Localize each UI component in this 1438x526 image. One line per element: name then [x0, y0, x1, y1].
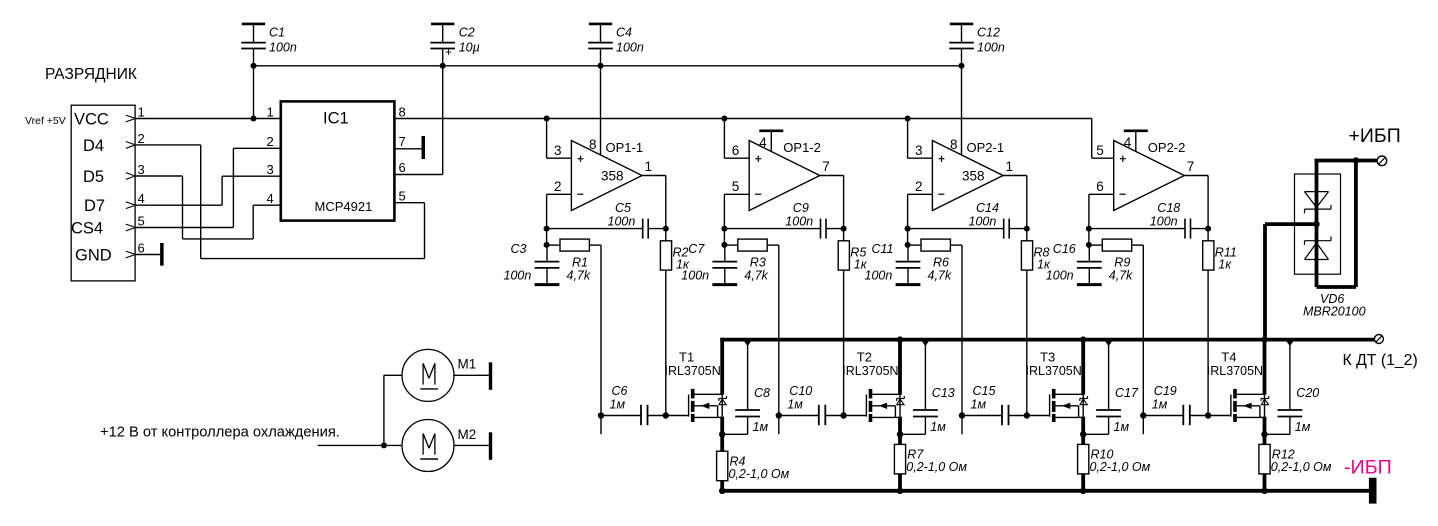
capacitor C13 — [913, 341, 938, 435]
label C14 — [976, 201, 999, 215]
svg-text:8: 8 — [589, 137, 597, 152]
svg-text:6: 6 — [732, 143, 740, 158]
svg-text:8: 8 — [399, 105, 406, 120]
wire source node to C17 — [1083, 433, 1108, 435]
diode VD6 upper half — [1305, 192, 1332, 214]
op-amp OP1-1 + sign — [578, 156, 584, 162]
wire VD6 common node to bus — [1265, 224, 1317, 340]
wire GND pin6 — [135, 254, 160, 256]
capacitor C5 feedback — [547, 219, 666, 239]
wire R8 to gate node — [1026, 270, 1028, 415]
pin number 8 of OP2-1 — [950, 137, 958, 152]
label R6 — [933, 256, 949, 270]
junction feedback right OP2-1 — [1024, 226, 1030, 232]
IC1 left pin 3 number — [267, 162, 274, 177]
value label C19 1м — [1152, 398, 1168, 412]
resistor R12 — [1259, 444, 1270, 474]
svg-text:100n: 100n — [865, 269, 893, 283]
wire VD6 cathode column — [1315, 161, 1319, 288]
connector X1 body — [71, 105, 135, 281]
value label R7 0,2-1,0 Ом — [906, 460, 967, 474]
junction C19 left node — [1140, 412, 1146, 418]
label R2 — [673, 246, 689, 260]
svg-text:C17: C17 — [1115, 386, 1139, 400]
connector pin 4 arrow — [126, 202, 135, 209]
junction gate node T4 — [1205, 412, 1211, 418]
svg-text:РАЗРЯДНИК: РАЗРЯДНИК — [45, 66, 137, 83]
wire - input of OP1-2 — [724, 194, 749, 245]
svg-text:C7: C7 — [688, 242, 705, 256]
wire - input of OP2-2 — [1089, 194, 1114, 245]
wire M1 to ground bar — [453, 374, 489, 376]
label C5 — [615, 201, 631, 215]
value label R12 0,2-1,0 Ом — [1271, 460, 1332, 474]
label R7 — [907, 448, 924, 462]
wire R11 to gate node — [1207, 270, 1209, 415]
value label R8 1к — [1037, 258, 1051, 272]
junction +ИБП branch — [1353, 157, 1359, 163]
ground bar at connector GND — [160, 243, 164, 266]
svg-text:3: 3 — [267, 162, 274, 177]
svg-text:+12 В от контроллера охлаждени: +12 В от контроллера охлаждения. — [100, 425, 340, 441]
wire output of OP1-1 to R2 — [642, 176, 666, 241]
value label T1 IRL3705N — [665, 364, 721, 378]
diode VD6 box — [1295, 174, 1341, 274]
svg-text:100n: 100n — [608, 215, 636, 229]
connector pin name D5 — [83, 168, 104, 186]
pin number 7 (out) of OP2-2 — [1187, 159, 1195, 174]
label C2 — [459, 25, 475, 39]
wire source of T2 down — [898, 417, 902, 445]
junction DAC rail / OP2-1 +input — [905, 116, 911, 122]
motor M2 — [402, 420, 454, 472]
wire D4 net — [135, 145, 424, 259]
svg-text:1м: 1м — [1295, 420, 1311, 434]
label R12 — [1272, 448, 1295, 462]
pin number 2 (-in) of OP2-1 — [915, 179, 923, 194]
svg-text:IRL3705N: IRL3705N — [842, 364, 898, 378]
wire drain of T1 to top bus — [720, 338, 724, 395]
svg-text:0,2-1,0 Ом: 0,2-1,0 Ом — [906, 460, 967, 474]
wire below C2 — [442, 66, 444, 175]
svg-text:100n: 100n — [269, 41, 297, 55]
value label R9 4,7k — [1109, 269, 1133, 283]
capacitor C16 — [1077, 245, 1102, 283]
connector pin 3 number — [138, 162, 145, 177]
svg-text:4,7k: 4,7k — [567, 269, 591, 283]
power bar above C2 — [431, 23, 454, 26]
op-amp OP2-1 + sign — [939, 156, 945, 162]
capacitor C1 — [241, 25, 266, 66]
svg-text:1м: 1м — [753, 420, 769, 434]
svg-text:4,7k: 4,7k — [1109, 269, 1133, 283]
wire IC1 pin7 — [394, 148, 421, 150]
value label C16 100n — [1046, 269, 1074, 283]
junction gate node T3 — [1024, 412, 1030, 418]
connector pin 6 arrow — [126, 251, 135, 258]
svg-text:C8: C8 — [754, 386, 770, 400]
value label C11 100n — [865, 269, 893, 283]
pin number 2 (-in) of OP1-1 — [554, 179, 562, 194]
op-amp OP2-2 — [1114, 141, 1185, 211]
svg-text:GND: GND — [75, 247, 112, 265]
wire - input of OP1-1 — [547, 194, 572, 245]
wire +ИБП right branch down — [1354, 161, 1358, 288]
svg-text:+: + — [445, 45, 452, 59]
wire +12V feed — [318, 444, 403, 446]
capacitor C8 — [735, 341, 760, 435]
svg-text:C14: C14 — [976, 201, 999, 215]
svg-text:M1: M1 — [458, 357, 477, 372]
svg-text:OP2-2: OP2-2 — [1148, 140, 1186, 155]
value label C4 100n — [616, 41, 644, 55]
wire output of OP2-2 to R11 — [1184, 176, 1208, 241]
connector pin 1 arrow — [126, 115, 135, 122]
svg-text:R3: R3 — [750, 256, 766, 270]
value label R10 0,2-1,0 Ом — [1090, 460, 1151, 474]
junction feedback left OP2-2 — [1086, 226, 1092, 232]
label R8 — [1034, 246, 1050, 260]
svg-text:2: 2 — [267, 134, 274, 149]
label R11 — [1215, 246, 1237, 260]
resistor R6 — [908, 239, 962, 251]
value label C9 100n — [785, 215, 813, 229]
wire output of OP1-2 to R5 — [820, 176, 844, 241]
label C10 — [789, 384, 812, 398]
junction source node T2 — [897, 431, 903, 437]
connector pin 2 number — [138, 131, 145, 146]
svg-text:100n: 100n — [969, 215, 997, 229]
svg-text:D7: D7 — [84, 197, 105, 215]
svg-text:100n: 100n — [616, 41, 644, 55]
label 358 inside OP1-1 — [601, 169, 624, 184]
ground bar at C11 — [896, 283, 921, 286]
wire drain of T4 to top bus — [1263, 338, 1267, 395]
wire below C12 — [961, 66, 963, 155]
svg-text:0,2-1,0 Ом: 0,2-1,0 Ом — [1271, 460, 1332, 474]
pin number 5 (+in) of OP2-2 — [1096, 143, 1104, 158]
value label R4 0,2-1,0 Ом — [729, 467, 790, 481]
svg-text:1м: 1м — [610, 398, 626, 412]
label C19 — [1154, 384, 1177, 398]
ground bar at M2 — [489, 432, 492, 460]
wire gate node to T3 gate — [1027, 415, 1050, 417]
label R1 — [572, 256, 588, 270]
resistor R10 — [1078, 444, 1089, 474]
svg-text:R1: R1 — [572, 256, 588, 270]
capacitor C4 — [588, 25, 613, 66]
junction R7 on bottom bus — [897, 488, 903, 494]
IC1 right pin 7 number — [399, 134, 406, 149]
junction DAC rail / OP1-1 +input — [544, 116, 550, 122]
svg-text:100n: 100n — [785, 215, 813, 229]
terminal К ДТ — [1374, 335, 1383, 344]
svg-text:5: 5 — [732, 179, 740, 194]
wire R10 to bottom bus — [1081, 474, 1085, 491]
pin number 1 (out) of OP1-1 — [645, 159, 653, 174]
wire D7 net — [135, 176, 281, 205]
power bar above C12 — [950, 23, 973, 26]
op-amp OP1-1 - sign — [577, 193, 583, 195]
junction C2 on +5V rail — [440, 63, 446, 69]
value label T2 IRL3705N — [842, 364, 898, 378]
wire to motor M1 — [384, 375, 402, 445]
junction feedback right OP1-1 — [663, 226, 669, 232]
wire DAC output rail from IC1 pin8 — [394, 118, 1091, 120]
IC1 right pin 6 number — [399, 160, 406, 175]
svg-text:C4: C4 — [616, 25, 632, 39]
op-amp OP2-2 - sign — [1120, 193, 1126, 195]
transistor T4 IRL3705N — [1231, 389, 1265, 422]
value label T3 IRL3705N — [1026, 364, 1082, 378]
wire - input of OP2-1 — [908, 194, 933, 245]
svg-text:+ИБП: +ИБП — [1349, 125, 1401, 147]
svg-text:0,2-1,0 Ом: 0,2-1,0 Ом — [1090, 460, 1151, 474]
wire + input of OP2-1 from DAC rail — [908, 119, 933, 159]
svg-text:C20: C20 — [1296, 386, 1319, 400]
label C8 — [754, 386, 770, 400]
label T2 — [857, 350, 872, 365]
svg-text:10µ: 10µ — [459, 41, 480, 55]
capacitor C10 — [779, 405, 844, 425]
pin number 5 (-in) of OP1-2 — [732, 179, 740, 194]
svg-text:C15: C15 — [973, 384, 996, 398]
value label C7 100n — [681, 269, 709, 283]
power bar above C4 — [589, 23, 612, 26]
ground bar at IC1 pin7 — [422, 136, 426, 159]
svg-text:4: 4 — [1124, 135, 1132, 150]
label VD6 — [1320, 292, 1344, 306]
label R9 — [1114, 256, 1130, 270]
connector pin name GND — [75, 247, 112, 265]
svg-text:R9: R9 — [1114, 256, 1130, 270]
resistor R3 — [724, 239, 778, 251]
wire D5 net — [135, 176, 281, 239]
value label C10 1м — [787, 398, 803, 412]
value label C6 1м — [610, 398, 626, 412]
wire R3 right lead down to source sense — [778, 245, 780, 434]
label C20 — [1296, 386, 1319, 400]
svg-text:7: 7 — [1187, 159, 1195, 174]
capacitor C11 — [896, 245, 921, 283]
junction C10 left node — [776, 412, 782, 418]
svg-text:2: 2 — [554, 179, 562, 194]
svg-text:OP1-2: OP1-2 — [783, 140, 821, 155]
ground bar at C3 — [535, 283, 560, 286]
IC1 part label MCP4921 — [315, 199, 373, 214]
wire + input of OP1-1 from DAC rail — [547, 119, 572, 159]
wire source of T4 down — [1263, 417, 1267, 445]
label M1 — [458, 357, 477, 372]
polarity + of C2 — [445, 45, 452, 59]
label T1 — [679, 350, 694, 365]
label C4 — [616, 25, 632, 39]
svg-text:1м: 1м — [971, 398, 987, 412]
svg-text:7: 7 — [822, 159, 830, 174]
wire +5V rail — [254, 65, 962, 67]
label C1 — [269, 25, 285, 39]
svg-text:3: 3 — [554, 143, 562, 158]
wire + input of OP1-2 from DAC rail — [724, 119, 749, 159]
value label C14 100n — [969, 215, 997, 229]
svg-text:C13: C13 — [932, 386, 955, 400]
junction feedback right OP1-2 — [841, 226, 847, 232]
svg-text:C1: C1 — [269, 25, 285, 39]
svg-text:C2: C2 — [459, 25, 475, 39]
wire R5 to gate node — [843, 270, 845, 415]
junction C15 left node — [959, 412, 965, 418]
resistor R4 — [717, 451, 728, 481]
svg-text:IRL3705N: IRL3705N — [1026, 364, 1082, 378]
svg-text:1м: 1м — [1152, 398, 1168, 412]
svg-text:1к: 1к — [1218, 258, 1232, 272]
svg-text:C9: C9 — [793, 201, 809, 215]
svg-text:T1: T1 — [679, 350, 694, 365]
wire R4 to bottom bus — [720, 481, 724, 491]
value label C15 1м — [971, 398, 987, 412]
svg-text:-ИБП: -ИБП — [1344, 457, 1392, 479]
capacitor C18 feedback — [1089, 219, 1208, 239]
wire drain of T2 to top bus — [898, 338, 902, 395]
wire M2 to ground bar — [453, 444, 489, 446]
motor M1 — [402, 349, 454, 401]
junction C12 on +5V rail — [959, 63, 965, 69]
resistor R2 — [660, 241, 671, 270]
svg-text:CS4: CS4 — [71, 220, 103, 238]
ground bar at C16 — [1077, 283, 1102, 286]
op-amp name label OP2-1 — [967, 140, 1005, 155]
pin number 1 (out) of OP2-1 — [1006, 159, 1014, 174]
svg-text:OP1-1: OP1-1 — [606, 140, 644, 155]
value label VD6 MBR20100 — [1303, 305, 1366, 319]
svg-text:VCC: VCC — [74, 111, 109, 129]
body diode of T3 — [1080, 394, 1088, 416]
resistor R7 — [894, 444, 905, 474]
op-amp OP1-2 — [749, 141, 820, 211]
wire source node to C13 — [900, 433, 925, 435]
op-amp OP2-1 — [932, 141, 1003, 211]
IC1 left pin 4 number — [267, 191, 274, 206]
IC1 name label — [323, 110, 349, 128]
junction gate node T1 — [663, 412, 669, 418]
net label К ДТ (1_2) — [1343, 352, 1418, 369]
junction DAC rail / OP1-2 +input — [721, 116, 727, 122]
ground bar at C7 — [712, 283, 737, 286]
connector pin name D4 — [83, 137, 104, 155]
wire source of T1 down — [720, 417, 724, 452]
net label -ИБП — [1344, 457, 1392, 479]
label C16 — [1053, 242, 1076, 256]
svg-text:Vref +5V: Vref +5V — [25, 115, 66, 127]
svg-text:C6: C6 — [612, 384, 628, 398]
connector pin 1 number — [138, 105, 145, 120]
junction VD6 common cathode — [1313, 221, 1319, 227]
svg-text:C5: C5 — [615, 201, 631, 215]
connector pin 6 number — [138, 241, 145, 256]
junction T3 drain on top bus — [1080, 336, 1086, 342]
svg-text:100n: 100n — [681, 269, 709, 283]
svg-text:MCP4921: MCP4921 — [315, 199, 373, 214]
value label C20 1м — [1295, 420, 1311, 434]
op-amp OP1-2 + sign — [755, 156, 761, 162]
junction gate node T2 — [840, 412, 846, 418]
svg-text:C16: C16 — [1053, 242, 1076, 256]
pin number 6 (+in) of OP1-2 — [732, 143, 740, 158]
label C9 — [793, 201, 809, 215]
pin number 3 (+in) of OP2-1 — [915, 143, 923, 158]
svg-text:1: 1 — [645, 159, 653, 174]
op-amp name label OP1-2 — [783, 140, 821, 155]
wire + input of OP2-2 (rail end corner) — [1092, 119, 1114, 159]
power bar at pin 4 of OP2-2 — [1124, 131, 1148, 152]
value label C1 100n — [269, 41, 297, 55]
svg-text:3: 3 — [915, 143, 923, 158]
label C13 — [932, 386, 955, 400]
junction R9/C16 node — [1086, 242, 1092, 248]
ground bar at M1 — [489, 362, 492, 390]
wire CS4 net — [135, 148, 281, 227]
connector pin 4 number — [138, 191, 145, 206]
svg-text:C10: C10 — [789, 384, 812, 398]
label C15 — [973, 384, 996, 398]
svg-text:4,7k: 4,7k — [744, 269, 768, 283]
value label R5 1к — [854, 258, 868, 272]
resistor R1 — [547, 239, 601, 251]
wire gate node to T1 gate — [666, 415, 689, 417]
capacitor C6 — [601, 405, 666, 425]
label C11 — [872, 242, 894, 256]
IC1 left pin 2 number — [267, 134, 274, 149]
op-amp name label OP2-2 — [1148, 140, 1186, 155]
wire top bus (drain rail to К ДТ) — [720, 338, 1374, 342]
wire source node to C8 — [722, 433, 747, 435]
wire VCC pin1 to IC1 pin1 — [135, 118, 281, 120]
capacitor C2 — [430, 25, 455, 66]
body diode of T1 — [719, 394, 727, 416]
junction +12V split — [381, 442, 387, 448]
transistor T2 IRL3705N — [866, 389, 900, 422]
junction source node T1 — [719, 431, 725, 437]
body diode of T2 — [897, 394, 905, 416]
wire R12 to bottom bus — [1263, 474, 1267, 491]
terminal +ИБП — [1377, 156, 1387, 166]
svg-text:100n: 100n — [1150, 215, 1178, 229]
svg-text:2: 2 — [915, 179, 923, 194]
net label +ИБП — [1349, 125, 1401, 147]
svg-text:3: 3 — [138, 162, 145, 177]
svg-text:7: 7 — [399, 134, 406, 149]
svg-text:8: 8 — [950, 137, 958, 152]
svg-text:100n: 100n — [977, 41, 1005, 55]
connector X1 РАЗРЯДНИК title — [45, 66, 137, 83]
junction feedback left OP1-1 — [544, 226, 550, 232]
IC1 left pin 1 number — [267, 105, 274, 120]
junction R12 on bottom bus — [1261, 488, 1267, 494]
label T3 — [1040, 350, 1055, 365]
label R5 — [850, 246, 866, 260]
IC1 right pin 8 number — [399, 105, 406, 120]
wire IC1 pin5 — [394, 202, 424, 204]
label +12 В от контроллера охлаждения — [100, 425, 340, 441]
wire IC1 pin6 to C2 — [394, 174, 442, 176]
capacitor C20 — [1278, 341, 1303, 435]
value label R3 4,7k — [744, 269, 768, 283]
junction T4/VD6 on top bus — [1261, 336, 1267, 342]
wire below C1 — [253, 66, 255, 119]
capacitor C12 — [949, 25, 974, 66]
value label C8 1м — [753, 420, 769, 434]
pin number 7 (out) of OP1-2 — [822, 159, 830, 174]
